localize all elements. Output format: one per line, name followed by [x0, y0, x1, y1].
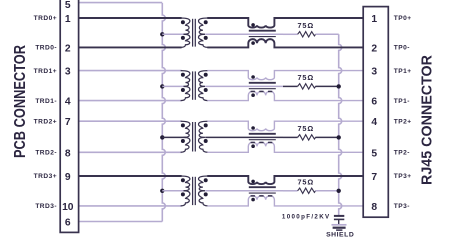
common-mode choke L4 bottom winding	[207, 196, 363, 206]
primary center-tap rail (left vertical bus with crossover hops)	[162, 3, 165, 222]
wire R1 to termination rail (corner)	[315, 33, 338, 35]
transformer T2 primary bottom winding	[181, 86, 190, 100]
resistor R4 75 ohm	[298, 188, 316, 193]
svg-text:TP3+: TP3+	[394, 173, 412, 180]
common-mode choke L4 top winding	[207, 176, 363, 184]
wire secondary center tap T1 to R1	[205, 33, 283, 35]
svg-text:TRD1+: TRD1+	[34, 68, 57, 75]
svg-text:8: 8	[371, 202, 377, 213]
shield earth symbol	[332, 225, 347, 230]
transformer T1 core	[193, 19, 196, 47]
transformer T1 phase dots	[181, 20, 208, 40]
transformer T2 phase dots	[181, 73, 208, 92]
wire primary center tap T2	[162, 85, 186, 87]
svg-text:TRD0+: TRD0+	[34, 15, 57, 22]
transformer T3 primary top winding	[181, 121, 190, 137]
wire TRD3- (PCB pin to transformer T4 primary bottom)	[79, 205, 182, 207]
resistor R2 75 ohm	[298, 84, 316, 89]
svg-text:TRD1-: TRD1-	[35, 98, 57, 105]
junction primary center tap T3	[160, 135, 164, 139]
svg-text:4: 4	[371, 117, 377, 128]
wire into R3	[283, 136, 298, 138]
wire secondary center tap T2 to R2	[205, 85, 283, 87]
common-mode choke L3 phase dots	[251, 126, 255, 148]
svg-text:TP2+: TP2+	[394, 118, 412, 125]
svg-text:5: 5	[371, 148, 377, 159]
wire TRD1- (PCB pin to transformer T2 primary bottom)	[79, 100, 182, 102]
wire TRD1+ (PCB pin to transformer T2 primary top)	[79, 70, 182, 72]
svg-text:PCB CONNECTOR: PCB CONNECTOR	[12, 45, 29, 158]
svg-text:TRD3-: TRD3-	[35, 203, 57, 210]
transformer T2 secondary bottom winding	[199, 86, 208, 100]
common-mode choke L1 top winding	[207, 18, 363, 28]
common-mode choke L3 bottom winding	[207, 142, 363, 152]
svg-text:6: 6	[371, 97, 377, 108]
common-mode choke L3 top winding	[207, 121, 363, 131]
svg-text:75Ω: 75Ω	[297, 177, 314, 186]
common-mode choke L2 core	[249, 83, 276, 89]
svg-text:TRD2+: TRD2+	[34, 118, 57, 125]
svg-text:1: 1	[65, 14, 71, 25]
junction primary center tap T1	[160, 32, 164, 36]
junction R3/rail	[337, 135, 341, 139]
wire R4 to termination rail	[315, 190, 338, 192]
svg-text:8: 8	[65, 148, 71, 159]
wire into R4	[283, 190, 298, 192]
svg-text:10: 10	[62, 202, 74, 213]
common-mode choke L4 winding-to-core dark caps	[251, 195, 273, 197]
svg-text:75Ω: 75Ω	[297, 21, 314, 30]
common-mode choke L3 core	[249, 134, 276, 140]
PCB connector box	[60, 0, 78, 232]
transformer T4 primary top winding	[181, 176, 190, 191]
wire into R1	[283, 33, 298, 35]
svg-text:3: 3	[371, 67, 377, 78]
common-mode choke L4 phase dots	[251, 180, 255, 202]
svg-text:9: 9	[65, 172, 71, 183]
wire TRD2+ (PCB pin to transformer T3 primary top)	[79, 120, 182, 122]
transformer T3 core	[193, 122, 196, 152]
transformer T4 core	[193, 177, 196, 205]
svg-text:4: 4	[65, 97, 71, 108]
svg-text:1000pF/2KV: 1000pF/2KV	[282, 214, 331, 221]
transformer T3 primary bottom winding	[181, 137, 190, 152]
transformer T4 primary bottom winding	[181, 191, 190, 206]
svg-text:7: 7	[371, 172, 377, 183]
common-mode choke L1 phase dots	[251, 23, 255, 45]
wire TRD0- (PCB pin to transformer T1 primary bottom)	[79, 46, 182, 48]
wire secondary center tap T3 to R3	[205, 136, 283, 138]
transformer T4 secondary bottom winding	[199, 191, 208, 206]
svg-text:TP1+: TP1+	[394, 68, 412, 75]
common-mode choke L2 top winding	[207, 71, 363, 80]
svg-text:6: 6	[65, 218, 71, 229]
wire primary center tap T4	[162, 190, 186, 192]
common-mode choke L2 phase dots	[251, 75, 255, 97]
svg-text:75Ω: 75Ω	[297, 124, 314, 133]
transformer T1 secondary bottom winding	[199, 34, 208, 47]
svg-text:TP3-: TP3-	[394, 203, 410, 210]
wire pin6 to center-tap rail	[79, 221, 163, 223]
transformer T2 primary top winding	[181, 71, 190, 87]
wire primary center tap T3	[162, 136, 186, 138]
transformer T2 core	[193, 71, 196, 99]
transformer T1 secondary top winding	[199, 18, 208, 34]
svg-text:2: 2	[371, 43, 377, 54]
wire into R2	[283, 85, 298, 87]
svg-text:TRD3+: TRD3+	[34, 173, 57, 180]
common-mode choke L2 bottom winding	[207, 91, 363, 100]
wire TRD3+ (PCB pin to transformer T4 primary top)	[79, 175, 182, 177]
junction R2/rail	[337, 84, 341, 88]
svg-text:TP1-: TP1-	[394, 98, 410, 105]
svg-text:1: 1	[371, 14, 377, 25]
svg-text:RJ45 CONNECTOR: RJ45 CONNECTOR	[420, 54, 436, 185]
junction primary center tap T4	[160, 189, 164, 193]
svg-text:3: 3	[65, 67, 71, 78]
transformer T3 phase dots	[181, 123, 208, 143]
svg-text:TP2-: TP2-	[394, 150, 410, 157]
svg-text:TRD2-: TRD2-	[35, 150, 57, 157]
svg-text:TRD0-: TRD0-	[35, 45, 57, 52]
common-mode choke L1 bottom winding	[207, 39, 363, 47]
common-mode choke L3 winding-to-core dark caps	[251, 142, 273, 144]
svg-text:SHIELD: SHIELD	[326, 231, 354, 238]
common-mode choke L4 core	[249, 187, 276, 193]
svg-text:2: 2	[65, 43, 71, 54]
resistor R3 75 ohm	[298, 135, 316, 140]
wire pin5 to center-tap rail	[79, 2, 163, 4]
common-mode choke L1 core	[249, 31, 276, 37]
junction primary center tap T2	[160, 84, 164, 88]
svg-text:7: 7	[65, 117, 71, 128]
svg-text:5: 5	[65, 0, 71, 11]
wire TRD0+ (PCB pin to transformer T1 primary top)	[79, 17, 182, 19]
capacitor C1 1000pF/2KV	[334, 216, 344, 225]
junction R4/rail	[337, 189, 341, 193]
termination common rail (right vertical bus with crossover hops)	[339, 34, 342, 215]
svg-text:TP0-: TP0-	[394, 45, 410, 52]
transformer T2 secondary top winding	[199, 71, 208, 87]
wire TRD2- (PCB pin to transformer T3 primary bottom)	[79, 151, 182, 153]
transformer T4 phase dots	[181, 178, 208, 196]
transformer T3 secondary top winding	[199, 121, 208, 137]
resistor R1 75 ohm	[298, 32, 316, 37]
common-mode choke L1 winding-to-core dark caps	[251, 38, 273, 40]
RJ45 connector box	[363, 7, 388, 218]
wire R3 to termination rail	[315, 136, 338, 138]
svg-text:TP0+: TP0+	[394, 15, 412, 22]
transformer T4 secondary top winding	[199, 176, 208, 191]
wire secondary center tap T4 to R4	[205, 190, 283, 192]
transformer T3 secondary bottom winding	[199, 137, 208, 152]
transformer T1 primary bottom winding	[181, 34, 190, 47]
common-mode choke L2 winding-to-core dark caps	[251, 91, 273, 93]
svg-text:75Ω: 75Ω	[297, 73, 314, 82]
wire R2 to termination rail	[315, 85, 338, 87]
transformer T1 primary top winding	[181, 18, 190, 34]
wire primary center tap T1	[162, 33, 186, 35]
